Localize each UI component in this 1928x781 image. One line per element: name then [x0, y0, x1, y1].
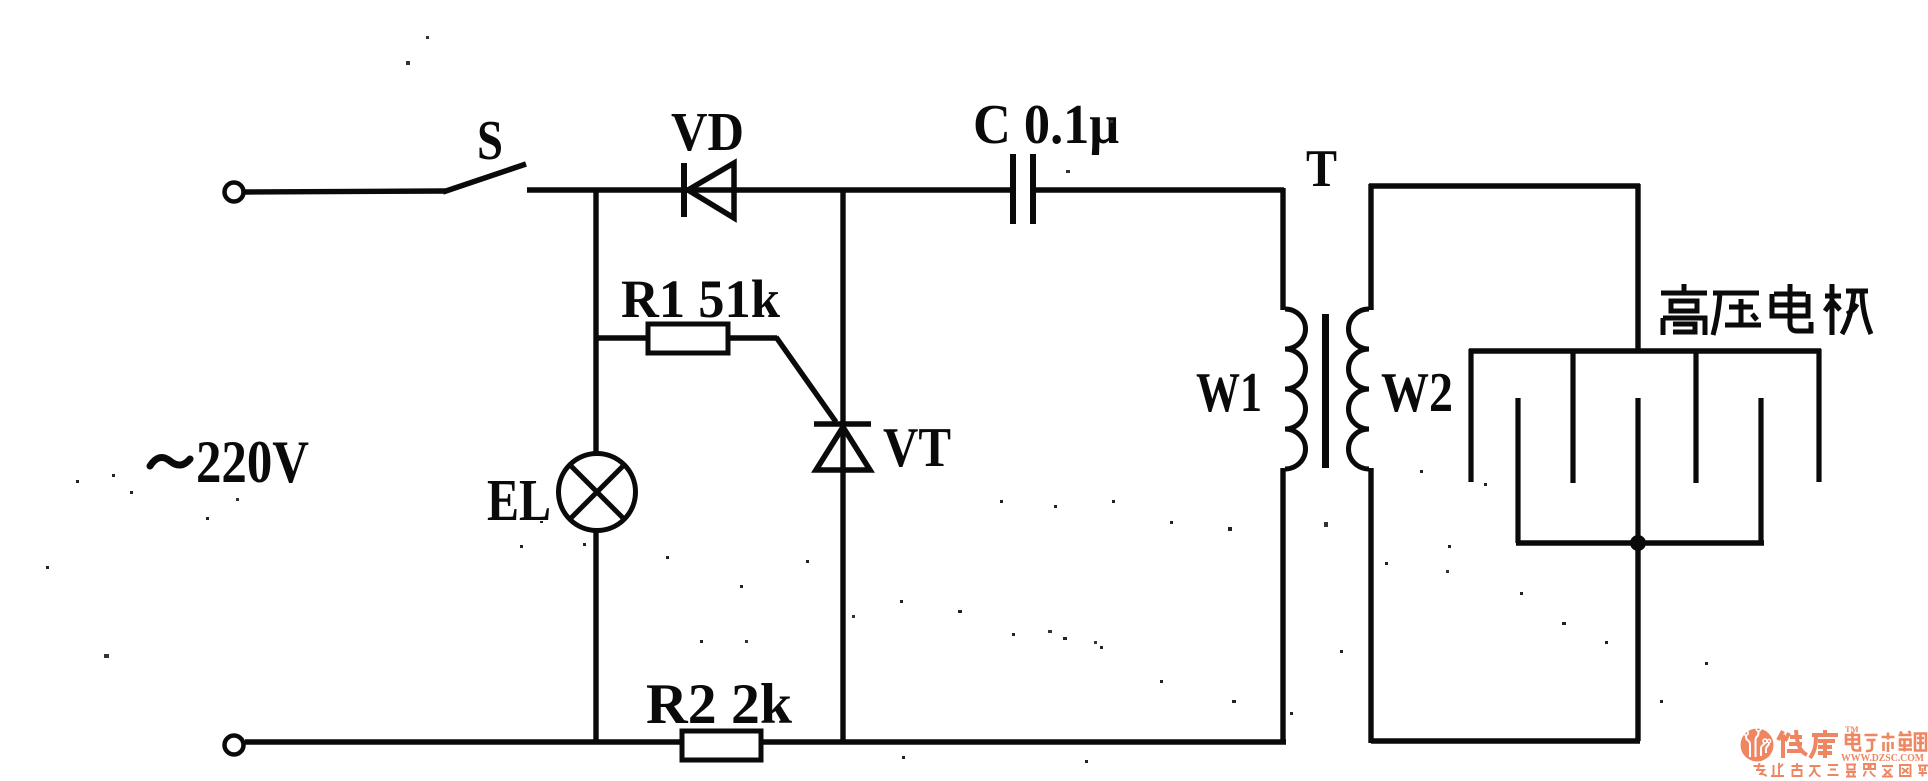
transformer W1 bottom lead — [1280, 468, 1285, 744]
electrode bottom bar — [1516, 540, 1764, 546]
wire R1 left lead — [596, 335, 648, 340]
thyristor VT cathode bar — [814, 421, 871, 427]
watermark tagline — [1754, 763, 1928, 777]
thyristor VT branch wire — [840, 190, 845, 742]
resistor R1 — [648, 324, 728, 353]
svg-text:VT: VT — [883, 417, 951, 479]
transformer W1 top lead — [1280, 188, 1285, 310]
svg-text:R2 2k: R2 2k — [646, 673, 792, 736]
watermark weiku text — [1778, 730, 1838, 758]
svg-text:WWW.DZSC.COM: WWW.DZSC.COM — [1841, 753, 1924, 764]
wire R1 right lead — [728, 335, 777, 340]
lamp EL cross — [570, 465, 624, 519]
label gaoyadianji (high voltage electrode) — [1661, 284, 1871, 335]
capacitor C right plate — [1030, 154, 1036, 224]
electrode top prong 4 — [1816, 349, 1821, 482]
diode VD triangle — [688, 163, 734, 218]
electrode top prong 3 — [1693, 351, 1698, 483]
terminal bottom-left — [225, 736, 244, 755]
thyristor VT triangle — [816, 427, 870, 470]
wire secondary top rail — [1369, 183, 1640, 188]
svg-text:C 0.1μ: C 0.1μ — [973, 94, 1119, 156]
scan noise specks — [46, 470, 1708, 763]
lamp EL circle — [559, 454, 636, 531]
electrode top prong 1 — [1468, 349, 1473, 482]
wire top rail right — [1036, 187, 1284, 193]
wire electrode to bottom — [1635, 543, 1640, 741]
watermark logo circle — [1741, 727, 1774, 762]
wire gate diagonal — [776, 337, 836, 422]
svg-text:T: T — [1306, 140, 1337, 198]
electrode top bar — [1469, 348, 1821, 354]
svg-text:R1 51k: R1 51k — [621, 269, 780, 329]
wire top rail left — [245, 191, 446, 192]
node junction left branch — [593, 188, 598, 455]
watermark dzsc text — [1846, 731, 1926, 752]
wire top rail mid — [527, 187, 1013, 193]
capacitor C left plate — [1010, 154, 1016, 224]
svg-text:TM: TM — [1845, 724, 1859, 734]
transformer core — [1322, 314, 1329, 468]
label ~220V — [150, 457, 190, 466]
electrode bottom prong 1 — [1515, 398, 1520, 543]
wire secondary drop — [1635, 184, 1640, 352]
transformer W1 winding — [1285, 309, 1306, 469]
electrode bottom prong 2 — [1635, 398, 1640, 543]
diode VD cathode bar — [681, 163, 687, 217]
electrode bottom prong 3 — [1758, 398, 1763, 543]
transformer W2 winding — [1349, 309, 1370, 469]
wire bottom rail — [245, 739, 1286, 745]
svg-text:W2: W2 — [1381, 362, 1453, 424]
svg-text:VD: VD — [671, 101, 744, 162]
svg-text:S: S — [477, 110, 503, 172]
wire lamp to bottom — [593, 529, 598, 743]
transformer W2 bottom lead — [1368, 468, 1373, 743]
svg-text:220V: 220V — [196, 429, 309, 495]
terminal top-left — [225, 183, 244, 202]
svg-text:EL: EL — [487, 467, 551, 533]
junction dot — [1630, 535, 1646, 551]
svg-text:W1: W1 — [1196, 362, 1262, 424]
wire secondary bottom rail — [1371, 738, 1640, 744]
transformer W2 top lead — [1368, 184, 1373, 310]
resistor R2 — [682, 731, 761, 760]
switch S lever — [443, 164, 526, 192]
electrode top prong 2 — [1570, 351, 1575, 483]
